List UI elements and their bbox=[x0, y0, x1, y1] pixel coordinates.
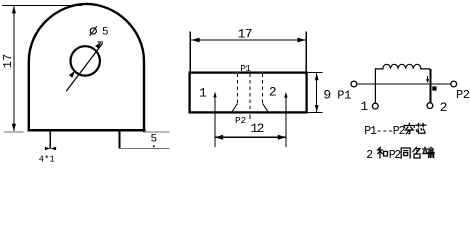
label P1 (bottom view) bbox=[240, 63, 251, 74]
svg-text:5: 5 bbox=[102, 26, 109, 38]
center hole circle bbox=[71, 46, 100, 75]
svg-text:17: 17 bbox=[238, 26, 252, 41]
svg-text:9: 9 bbox=[323, 87, 331, 102]
svg-text:4*1: 4*1 bbox=[39, 155, 55, 165]
schematic primary wire P1-P2 bbox=[357, 83, 451, 85]
pin 1 marker bbox=[199, 85, 217, 147]
terminal 2 bbox=[427, 100, 447, 115]
pin spacing dimension 12 bbox=[215, 121, 287, 140]
hidden hole lines (dashed) bbox=[232, 74, 268, 119]
secondary winding L1 bbox=[375, 64, 430, 103]
svg-text:P1---P2: P1---P2 bbox=[364, 125, 405, 138]
label P2 (bottom view) bbox=[235, 115, 247, 126]
svg-text:P2: P2 bbox=[235, 115, 247, 126]
svg-text:P2: P2 bbox=[456, 88, 470, 102]
svg-text:2: 2 bbox=[269, 85, 277, 100]
polarity dot (square) bbox=[432, 86, 436, 90]
terminal 1 bbox=[360, 99, 378, 114]
CT body rectangle (bottom view) bbox=[190, 73, 307, 113]
terminal P1 bbox=[337, 81, 357, 102]
thickness dimension 9 bbox=[308, 73, 331, 113]
width dimension 17 (bottom view) bbox=[190, 26, 306, 71]
left lead pin bbox=[49, 131, 51, 149]
pin size dimension 4*1 bbox=[39, 147, 56, 165]
svg-text:2: 2 bbox=[440, 100, 448, 115]
note line 1: P1---P2 chuan xin bbox=[364, 123, 426, 138]
svg-text:12: 12 bbox=[250, 121, 263, 136]
terminal P2 bbox=[451, 81, 470, 102]
hole diameter label Ø 5 bbox=[90, 26, 109, 38]
svg-text:5: 5 bbox=[151, 134, 158, 146]
svg-text:2: 2 bbox=[366, 149, 373, 162]
svg-text:17: 17 bbox=[1, 54, 15, 68]
hole diameter leader line bbox=[66, 42, 103, 91]
svg-text:P1: P1 bbox=[337, 89, 351, 103]
svg-text:1: 1 bbox=[199, 85, 207, 100]
right lead pin bbox=[119, 131, 121, 149]
pin length dimension 5 bbox=[120, 132, 170, 149]
pin 2 marker bbox=[269, 85, 288, 147]
height dimension 17 (front view) bbox=[1, 6, 82, 132]
note line 2: 2 and P2 same-name terminals bbox=[366, 147, 434, 162]
svg-text:1: 1 bbox=[360, 99, 368, 114]
CT body outline (front view) bbox=[27, 4, 145, 131]
svg-text:P1: P1 bbox=[240, 63, 251, 74]
svg-text:P2: P2 bbox=[389, 149, 402, 162]
winding direction arrow bbox=[426, 76, 429, 83]
